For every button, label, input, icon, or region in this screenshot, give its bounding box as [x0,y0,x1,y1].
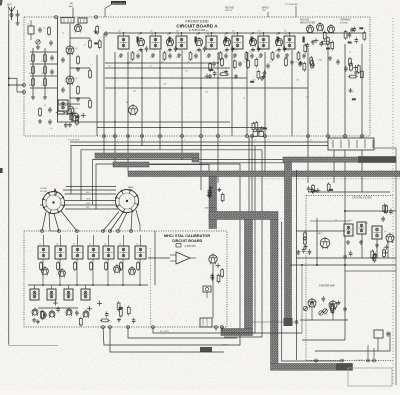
shielded cable V0 branch [209,177,217,229]
transistor Q21 [42,266,49,275]
calibrator pin top 4 [102,230,105,233]
wire S2 fan 4 [131,212,132,231]
wire antenna lower [8,85,10,344]
svg-text:.02: .02 [209,50,211,52]
S-meter cluster [303,296,347,314]
wire y221 right [310,220,350,222]
label B+ [160,331,170,333]
transistor Q24 [129,266,136,275]
page frame left [8,8,10,345]
connector pin top 2 [95,16,98,19]
IF board outline left [305,196,307,361]
label S2 [128,186,134,192]
connector pin bottom 9 [246,135,251,142]
wire loop y164 [96,164,240,345]
transistor Q25 [32,308,38,317]
resistor R2 [32,53,35,63]
cable dotted underline [250,178,400,180]
calibrator divider dashed [150,248,152,327]
svg-text:R35: R35 [205,92,208,94]
transistor Q27 [66,308,72,317]
wire into S2 y194 [65,193,117,195]
svg-text:1: 1 [106,140,107,142]
antenna AT1 [7,4,15,21]
wire S2 fan 5 [136,210,140,231]
wire bottom pins stub [216,327,222,331]
svg-text:BAND: BAND [262,7,269,10]
svg-text:T6: T6 [119,244,121,246]
wire into S2 y205 [65,204,117,206]
wire S1 fan 1 [42,212,46,231]
wire thin corner [226,146,255,333]
bottom mid cluster [252,121,267,133]
transistor Q1 [137,34,148,53]
cal right misc [210,263,223,283]
divider stage T16 [118,235,129,271]
svg-text:Q4: Q4 [224,34,227,36]
xtal bank [344,26,366,43]
transistor Q23 [114,264,121,273]
mid components 2 [250,58,266,83]
svg-text:X1: X1 [349,52,351,54]
page frame bottom-left [9,345,59,347]
rotary connector S2 [115,189,139,213]
label ANT GND [205,207,215,210]
emitter resistor RE1 [76,55,80,71]
divider transformer T18 [30,285,39,300]
wire L2 [128,327,237,338]
wire y351 [315,350,390,352]
cal stage labels [39,244,138,246]
divider transformer T20 [64,285,73,300]
wire stage down [92,259,94,285]
wire y160 run [93,160,285,206]
page frame right dotted [392,18,394,386]
IF transformer T5 [232,31,254,64]
ground G11 [359,240,363,244]
transistor Q4 [223,34,234,53]
coil cluster [94,25,108,49]
wire into S2 y190 [63,189,116,191]
wire left bus vertical [57,18,59,122]
wire into S1 y205 [40,204,43,206]
svg-text:FILTER: FILTER [340,22,348,24]
small connector squares [253,132,264,137]
transistor Q17 [328,24,335,34]
svg-text:B+ 13.8V: B+ 13.8V [160,331,170,333]
wire x128 down [127,136,129,171]
connector pin top 1 [55,16,58,19]
transistor Q31 [386,233,394,244]
svg-text:470: 470 [161,62,164,64]
svg-text:T1: T1 [119,34,121,36]
tie y64 [30,63,58,65]
input capacitor C2 [38,27,46,33]
svg-text:470: 470 [41,61,44,63]
wire vertical x232 [231,50,233,136]
board A title [176,19,218,33]
wire x142 down [141,136,143,146]
box A extra caps [212,59,340,69]
label BAND [262,7,269,18]
junction pin d0 [315,359,318,362]
wire y258 bfo [296,257,396,259]
svg-text:5: 5 [162,140,163,142]
wire row y122 [57,121,230,123]
svg-text:T4: T4 [207,34,209,36]
wire vertical x292 [291,50,293,136]
label 455 KHZ [225,8,235,13]
calibrator bottom cluster [97,301,135,324]
wire x374 stub [373,348,375,359]
right mid components [344,62,363,100]
wire L4 [110,327,224,352]
shielded cable end cap low [200,347,212,352]
wire vertical x142 [141,50,143,136]
transistor Q2 [166,34,177,53]
svg-text:ORG: ORG [86,203,91,205]
wire stub pin2 [17,78,24,92]
wire x160 down [159,136,161,150]
label crystal filter [352,197,372,200]
IF transformer T7 [284,31,306,64]
wire vertical x345 [344,44,346,136]
svg-text:SW: SW [128,190,131,192]
wire x104 down [103,136,105,153]
wire pins into CN1 [328,136,362,138]
divider transformer T21 [81,285,90,300]
rail mid [44,48,46,95]
crystal filter cluster [307,182,333,194]
wire stage down [122,259,124,285]
op-amp U1 [170,252,196,264]
junction pin d2 [367,359,370,362]
tie y76 [30,75,58,77]
svg-text:455: 455 [206,31,209,33]
svg-text:C 558 559: C 558 559 [184,245,196,248]
IF board outline top [306,195,393,197]
crossing dots rows [114,62,219,128]
transistor Q26 [49,310,55,319]
wire vertical x328 [327,46,329,136]
IF transformer T2 [150,31,172,64]
svg-text:YEL: YEL [86,207,90,209]
connector pin J2 [23,91,26,94]
wire y145.5 run [71,146,328,195]
box A extra gnds [208,56,358,80]
svg-text:CRYSTAL FILTER: CRYSTAL FILTER [352,197,372,200]
wire vertical x362 [361,44,363,136]
svg-text:DX SW: DX SW [40,191,47,193]
label shield [222,345,229,347]
connector pin bottom 13 [327,135,332,142]
svg-text:CERAMIC: CERAMIC [340,19,351,22]
calibrator pin top 3 [76,230,79,233]
svg-text:T3: T3 [73,244,75,246]
wire vertical x265 [264,52,266,136]
shielded cable B2 [113,162,149,167]
wire vertical x115 [114,52,116,136]
svg-text:11: 11 [267,140,269,142]
choke L3 [89,68,92,79]
svg-text:.02: .02 [261,50,263,52]
svg-text:455 KHZ: 455 KHZ [300,20,310,22]
calibrator pin bottom 3 [127,326,130,329]
resistor R7 [44,77,47,87]
svg-text:8: 8 [220,140,221,142]
svg-text:GRN: GRN [86,199,91,201]
connector pin bottom 14 [344,135,349,142]
wire y192 right [308,191,390,193]
wire x362 down [361,150,363,192]
svg-text:LOCAL: LOCAL [40,187,48,190]
calibrator title [164,234,210,248]
connector pin bottom 4 [141,135,146,142]
junction dots bfo [301,210,346,266]
wire x115 down [114,136,116,162]
svg-text:455: 455 [232,31,235,33]
wire vertical x160 [159,50,161,136]
trimmer CT1 [36,39,40,49]
svg-text:12: 12 [310,140,312,142]
junction pin d3 [373,359,376,362]
transistor Q18 [126,102,138,116]
IF transformer T8 [58,100,68,111]
connector pin J1 [23,84,26,87]
svg-text:2ND IF: 2ND IF [225,10,233,12]
shielded cable V1 [245,220,253,329]
wire y320 smeter [300,319,348,321]
wire into S2 y186 [66,186,116,188]
wire vertical x308 [307,48,309,136]
svg-text:T5: T5 [233,34,235,36]
svg-text:T3: T3 [177,34,179,36]
calibrator pin bottom 5 [215,326,218,329]
svg-text:OSC: OSC [318,60,323,62]
base cap CB2 [61,87,65,93]
wire x265 down [264,136,266,171]
connector pin bottom 10 [251,135,256,142]
shielded cable H2 [209,212,278,220]
collector tie 2 [70,67,90,69]
mid components 1 [205,59,237,78]
divider stage T12 [55,235,66,271]
label S1 [40,187,48,193]
wire stage down [76,259,78,285]
calibrator pin bottom 6 [221,326,224,329]
svg-text:ANT: ANT [69,5,74,8]
wire into S2 y200 [65,200,116,202]
wire row y68 [105,67,230,69]
svg-text:3: 3 [130,140,131,142]
transistor Q15 [307,24,314,34]
meter pot VR1 [319,310,328,316]
resistor R6 [32,77,35,87]
wire opamp feed [148,257,170,259]
svg-text:470: 470 [295,62,298,64]
circuit board A outline [24,17,370,136]
dashed wire y360 [306,360,393,362]
svg-text:7: 7 [203,140,204,142]
coupling cap C3 [49,40,53,46]
wire x218 down [217,136,219,183]
top right caps [381,203,392,222]
shielded cable R1 end cap [358,156,396,163]
wire x334 down [333,150,335,183]
svg-text:R9: R9 [44,105,46,107]
svg-text:455 KHZ: 455 KHZ [225,8,235,10]
wire S1 fan 3 [61,211,77,231]
wire S1 fan 2 [54,214,59,232]
wire cal row [28,284,148,286]
calibrator pin top 6 [117,230,120,233]
svg-text:L5: L5 [62,33,64,35]
calibrator board outline [24,231,227,327]
input resistor R1 [48,26,51,36]
svg-text:MODULATION: MODULATION [112,2,126,5]
svg-text:R22: R22 [185,71,188,73]
svg-text:Q5: Q5 [250,34,253,36]
wire x362 det [361,234,363,258]
calibrator pin top 2 [58,230,61,233]
svg-text:14: 14 [347,140,349,142]
page edge mark left [0,168,3,173]
wire vertical x97 [96,55,98,136]
box A misc labels [62,33,355,100]
svg-text:.02: .02 [235,50,237,52]
wire y149.8 run [81,150,262,337]
wire y162 run [199,162,284,164]
svg-text:R81: R81 [297,254,300,256]
wire S1 fan 4 [49,213,59,231]
resistor R3 [44,53,47,63]
transistor Q6 [275,34,286,53]
svg-text:Q6: Q6 [276,34,279,36]
svg-text:T11: T11 [365,223,368,225]
wire x182 down [181,136,183,160]
ground G1 [31,95,35,99]
collector tie 3 [70,97,90,99]
wire x345 lower [344,265,346,340]
wire cal right v [154,231,156,285]
svg-text:BFO: BFO [318,233,323,235]
svg-text:T5: T5 [104,244,106,246]
svg-text:Q9: Q9 [384,231,387,233]
svg-text:CIRCUIT BOARD A: CIRCUIT BOARD A [176,24,218,29]
label cluster values [29,61,44,87]
wire vertical x128 [127,52,129,136]
transistor Q19 [71,112,79,123]
wire antenna down [8,20,10,85]
svg-text:Q1: Q1 [138,34,141,36]
svg-text:T2: T2 [151,34,153,36]
divider stage T15 [103,235,114,271]
svg-text:Q3: Q3 [196,34,199,36]
antenna trim cluster [207,185,224,202]
label to spkr [355,360,364,362]
svg-text:470: 470 [243,62,246,64]
transistor Q14 [75,23,82,33]
svg-text:2: 2 [117,140,118,142]
cal value labels [40,263,140,265]
faint speaker box [348,368,392,386]
svg-text:.02: .02 [287,50,289,52]
transistor Q22 [59,268,66,277]
tie y52 [30,51,58,53]
IF transformer T22 [344,224,353,236]
svg-text:BLU: BLU [86,192,90,194]
junction pin d1 [341,359,344,362]
ground G10 [346,240,350,244]
wire x377 det [376,239,378,258]
wire stage down [42,259,44,285]
svg-text:.02: .02 [121,50,123,52]
rail left [32,48,34,95]
divider stage T14 [88,235,99,271]
wire y340 [302,339,345,341]
wire stage down [139,259,141,285]
divider stage T17 [135,235,146,271]
svg-text:ANT GND: ANT GND [205,207,215,210]
wire CN1 out right [374,148,396,385]
wire L1 [153,327,302,333]
wire vertical x247 [246,52,248,136]
calibrator pin top 5 [109,230,112,233]
oscillator cluster [304,31,334,54]
wire cal bottom [38,307,78,309]
svg-text:455: 455 [258,31,261,33]
transistor Q13 [66,105,79,116]
svg-text:455: 455 [118,31,121,33]
transistor Q11 [66,45,79,56]
svg-text:T6: T6 [259,34,261,36]
wire y211 right [345,210,396,212]
connector block CN1 [328,138,374,150]
wire x390 [389,332,391,351]
calibrator misc [32,301,92,327]
choke L4 [89,98,92,109]
connector pin bottom 7 [200,135,205,142]
svg-text:.02: .02 [179,50,181,52]
wire row y127 [97,127,265,129]
shielded cable B3 horizontal [128,171,400,177]
svg-text:CIRCUIT BOARD: CIRCUIT BOARD [172,239,203,243]
crystal Y1 [203,286,211,298]
svg-text:470: 470 [187,62,190,64]
svg-text:470: 470 [129,62,132,64]
svg-text:.01: .01 [243,98,245,100]
label top center [285,4,298,17]
svg-text:.01: .01 [41,85,44,87]
svg-text:T1: T1 [39,244,41,246]
transistor Q30 [318,233,330,249]
connector pin bottom 11 [264,135,269,142]
wire antenna to board [8,84,24,86]
transistor Q32 [308,298,316,309]
wire S2 fan 3 [118,213,127,232]
wire x333 smeter [332,309,334,320]
transistor Q29 [209,253,217,264]
wire x308 down [307,136,309,183]
svg-text:C7: C7 [84,45,86,47]
transistor Q33 [329,300,337,311]
wire y231 bfo [296,230,345,232]
wire x296 long [295,170,298,360]
shielded cable V1 turn left [221,329,253,336]
right components 3 [299,56,315,72]
svg-text:470: 470 [217,62,220,64]
arrow S1 [54,188,56,196]
